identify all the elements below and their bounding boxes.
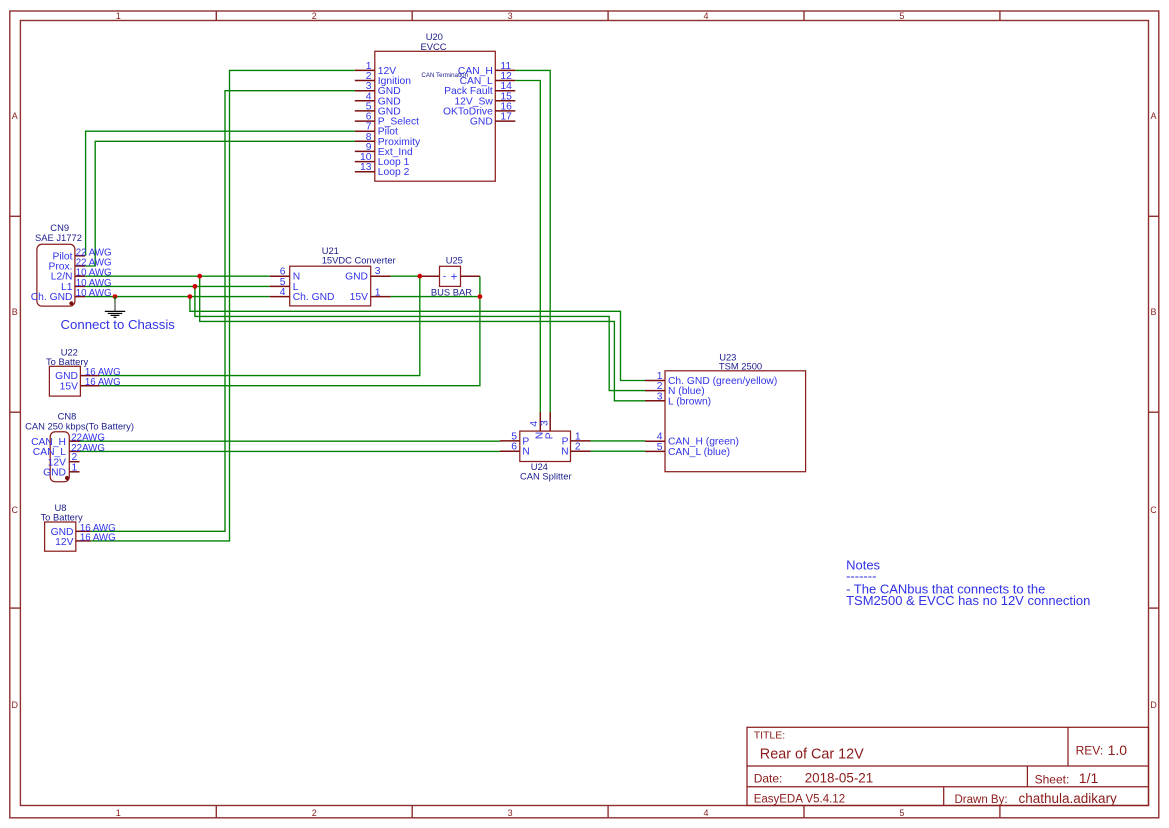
svg-text:Loop 2: Loop 2	[378, 167, 410, 178]
U24 right pin stubs	[571, 441, 591, 451]
svg-text:2: 2	[575, 442, 581, 453]
wire U20 pin11 CAN_H to U24 pin3	[515, 70, 550, 412]
svg-text:Ch. GND: Ch. GND	[31, 292, 73, 303]
U24 left pin stubs	[500, 441, 520, 451]
svg-text:-: -	[443, 272, 446, 283]
svg-text:CAN_L (blue): CAN_L (blue)	[668, 447, 730, 458]
wire U25 plus down to U22 15V	[100, 276, 480, 386]
wire CN8 CAN_L to U24 pin6	[80, 450, 500, 452]
frame row ticks	[10, 216, 1159, 608]
connector CN9 SAE J1772 body	[37, 244, 75, 306]
frame column numbers top	[116, 11, 905, 21]
svg-text:L (brown): L (brown)	[668, 396, 711, 407]
wire U20 pin1 12V to U8 12V	[91, 70, 355, 541]
junction dot 15V net	[478, 294, 483, 299]
svg-text:GND: GND	[43, 467, 66, 478]
wire U20 pin8 Proximity to CN9 Prox	[85, 141, 355, 266]
wire U24 pin1 to U23 pin4	[591, 440, 646, 442]
junction dot L1 branch	[193, 284, 198, 289]
wire branch L2/N to U23 pin3	[200, 276, 645, 401]
svg-text:P: P	[544, 432, 555, 439]
title block DrawnBy divider	[943, 787, 945, 806]
U21 left pin numbers	[280, 267, 286, 298]
svg-text:5: 5	[657, 442, 663, 453]
svg-text:BUS BAR: BUS BAR	[431, 286, 472, 297]
svg-text:13: 13	[360, 162, 372, 173]
svg-text:2: 2	[312, 808, 317, 818]
svg-text:D: D	[12, 700, 19, 710]
U22 pin names	[55, 371, 78, 392]
svg-text:Connect to Chassis: Connect to Chassis	[61, 317, 176, 332]
svg-text:3: 3	[539, 420, 550, 426]
CN9 pin names	[31, 251, 73, 303]
svg-text:1.0: 1.0	[1108, 742, 1128, 758]
U8 pin stubs	[76, 531, 91, 541]
component U22 To Battery body	[49, 366, 80, 396]
svg-text:Rear of Car 12V: Rear of Car 12V	[760, 747, 864, 763]
U25 right pin stub	[461, 275, 480, 277]
component U20 EVCC body	[375, 51, 496, 181]
svg-text:5: 5	[899, 808, 904, 818]
svg-text:CAN Termination: CAN Termination	[421, 72, 468, 79]
svg-text:REV:: REV:	[1076, 744, 1104, 758]
wire U20 pin7 Pilot to CN9 Pilot	[86, 131, 355, 256]
CN8 pin names	[31, 437, 66, 479]
U20 right pin stubs	[495, 70, 515, 121]
svg-text:6: 6	[511, 442, 517, 453]
title block row line 1	[747, 765, 1149, 767]
svg-text:N: N	[561, 447, 568, 458]
wire branch L1 to U23 pin2	[195, 286, 645, 390]
svg-text:3: 3	[657, 391, 663, 402]
svg-text:15V: 15V	[350, 292, 368, 303]
U22 pin stubs	[80, 376, 99, 386]
svg-text:B: B	[12, 307, 18, 317]
svg-text:16 AWG: 16 AWG	[85, 377, 121, 388]
svg-text:To Battery: To Battery	[41, 511, 84, 522]
svg-text:Ch. GND: Ch. GND	[293, 292, 335, 303]
svg-text:Drawn By:: Drawn By:	[955, 794, 1008, 806]
svg-text:16 AWG: 16 AWG	[80, 532, 116, 543]
svg-text:Date:: Date:	[754, 772, 783, 786]
svg-text:2018-05-21: 2018-05-21	[805, 771, 874, 786]
U23 pin stubs	[645, 381, 665, 452]
svg-text:N: N	[522, 447, 529, 458]
svg-text:2: 2	[312, 11, 317, 21]
U23 pin numbers	[657, 371, 663, 453]
wire CN9 L2/N to U21 N	[85, 275, 270, 277]
svg-text:CAN Splitter: CAN Splitter	[520, 471, 572, 482]
svg-text:3: 3	[508, 808, 513, 818]
U20 left pin names	[378, 66, 421, 178]
wire U22 GND up to GND net	[100, 276, 420, 375]
svg-text:GND: GND	[470, 117, 493, 128]
svg-text:15V: 15V	[60, 381, 78, 392]
svg-text:+: +	[451, 271, 458, 283]
wire CN9 L1 to U21 L	[85, 285, 270, 287]
junction dot L2/N branch	[197, 274, 202, 279]
junction dot GND net at U25 minus	[417, 274, 422, 279]
svg-text:3: 3	[375, 266, 381, 277]
U20 right pin names	[443, 66, 493, 128]
U21 right pin stubs	[371, 276, 391, 296]
U20 left pin stubs	[355, 70, 375, 171]
svg-text:EasyEDA V5.4.12: EasyEDA V5.4.12	[754, 793, 845, 805]
svg-text:4: 4	[703, 11, 708, 21]
U25 left pin stub	[420, 275, 440, 277]
svg-text:TITLE:: TITLE:	[754, 730, 786, 742]
svg-text:chathula.adikary: chathula.adikary	[1019, 791, 1118, 806]
svg-text:TSM2500 & EVCC has no 12V conn: TSM2500 & EVCC has no 12V connection	[846, 593, 1090, 608]
wire U20 pin3 GND to U8 GND	[91, 91, 355, 532]
frame row letters right	[1150, 111, 1157, 710]
wire U21 GND to U25 minus	[391, 275, 420, 277]
wire U21 15V to 15V net	[391, 296, 480, 298]
svg-text:4: 4	[703, 808, 708, 818]
wire U20 pin12 CAN_L to U24 pin4	[515, 81, 540, 413]
svg-text:EVCC: EVCC	[421, 41, 447, 52]
connector CN8 body	[50, 432, 69, 482]
svg-text:A: A	[1150, 111, 1156, 121]
U24 top pin stubs	[540, 412, 550, 431]
wire branch Ch.GND to U23 pin1	[190, 297, 645, 381]
svg-text:5: 5	[899, 11, 904, 21]
component U24 CAN Splitter body	[520, 431, 571, 461]
U20 right pin numbers	[500, 61, 512, 123]
CN9 pin1 marker dot	[69, 301, 73, 305]
U24 left pin names	[522, 436, 529, 457]
svg-text:GND: GND	[345, 272, 368, 283]
svg-text:CAN 250 kbps(To Battery): CAN 250 kbps(To Battery)	[25, 421, 134, 432]
svg-text:SAE J1772: SAE J1772	[35, 232, 82, 243]
U24 right pin numbers	[575, 431, 581, 452]
svg-text:C: C	[12, 505, 19, 515]
wire CN8 CAN_H to U24 pin5	[80, 440, 500, 442]
junction dot ground tap	[113, 294, 118, 299]
svg-text:3: 3	[508, 11, 513, 21]
component U8 To Battery body	[45, 522, 76, 551]
component U25 BUS BAR body	[440, 266, 461, 286]
U23 pin names	[668, 376, 777, 458]
CN8 pin stubs	[69, 441, 79, 472]
title block REV divider	[1067, 727, 1069, 766]
svg-text:22AWG: 22AWG	[71, 443, 105, 454]
svg-text:1: 1	[72, 462, 78, 473]
title block row line 2	[747, 786, 1149, 788]
chassis ground symbol	[114, 297, 116, 301]
U24 left pin numbers	[511, 431, 517, 452]
svg-text:4: 4	[280, 287, 286, 298]
wire U24 pin2 to U23 pin5	[591, 450, 646, 452]
U21 right pin numbers	[375, 266, 381, 298]
svg-text:1/1: 1/1	[1079, 770, 1099, 786]
U21 right pin names	[345, 272, 368, 303]
svg-text:TSM 2500: TSM 2500	[719, 360, 762, 371]
junction dot Ch.GND branch	[188, 294, 193, 299]
U20 left pin numbers	[360, 61, 372, 173]
U8 pin names	[51, 527, 74, 548]
svg-text:17: 17	[500, 112, 512, 123]
svg-text:1: 1	[116, 808, 121, 818]
svg-text:D: D	[1150, 700, 1157, 710]
svg-text:A: A	[12, 111, 18, 121]
component U23 TSM 2500 body	[665, 371, 806, 472]
component U21 15VDC Converter body	[290, 266, 371, 306]
frame row letters left	[12, 111, 19, 710]
svg-text:10 AWG: 10 AWG	[76, 288, 112, 299]
CN8 pin1 marker dot	[65, 476, 69, 480]
svg-text:15VDC Converter: 15VDC Converter	[322, 254, 396, 265]
U21 left pin names	[293, 272, 335, 303]
svg-text:U25: U25	[446, 255, 463, 266]
title block Sheet divider	[1026, 766, 1028, 787]
svg-text:To Battery: To Battery	[46, 356, 89, 367]
svg-text:1: 1	[116, 11, 121, 21]
wire CN9 Ch.GND to U21 Ch.GND	[85, 296, 270, 298]
CN9 pin stubs	[75, 256, 85, 297]
U24 right pin names	[561, 436, 569, 457]
frame column numbers bottom	[116, 808, 905, 818]
svg-text:C: C	[1150, 505, 1157, 515]
U21 left pin stubs	[270, 276, 290, 296]
frame column ticks	[216, 11, 1000, 818]
title block outer	[747, 727, 1149, 805]
svg-text:12V: 12V	[55, 537, 73, 548]
svg-text:Sheet:: Sheet:	[1035, 773, 1070, 787]
CN8 pin numbers 2 and 1	[72, 452, 78, 473]
svg-text:1: 1	[375, 287, 381, 298]
svg-text:B: B	[1150, 307, 1156, 317]
